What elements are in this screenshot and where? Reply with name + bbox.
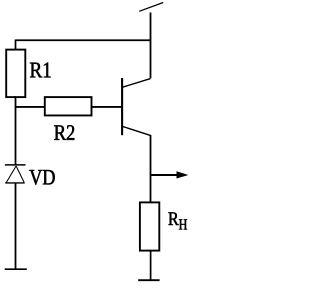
wire emitter vertical [150,135,152,203]
wire R2 left lead [15,106,46,108]
label VD [29,170,54,185]
output arrow shaft [151,174,178,176]
wire left rail upper [15,96,17,165]
power supply terminal [139,3,163,12]
ground right [138,279,159,281]
transistor VT1 collector stroke [122,79,150,88]
diode VD cathode bar [5,164,26,166]
transistor VT1 emitter stroke [122,126,150,135]
output arrow head [177,171,189,178]
resistor R1 [6,50,25,98]
resistor R2 [45,97,92,115]
transistor VT1 base bar [121,78,123,135]
ground left [5,268,27,270]
label R1 [30,63,51,78]
wire RH bottom lead [150,250,152,280]
wire left rail lower [15,183,17,269]
label R2 [54,125,74,140]
resistor RH [140,202,159,250]
wire top rail [16,39,151,41]
wire R2 right lead / base wire [91,106,123,108]
wire supply to collector [150,13,152,79]
wire R1 top lead [15,40,17,51]
diode VD triangle [5,166,25,183]
label RH [168,212,187,229]
